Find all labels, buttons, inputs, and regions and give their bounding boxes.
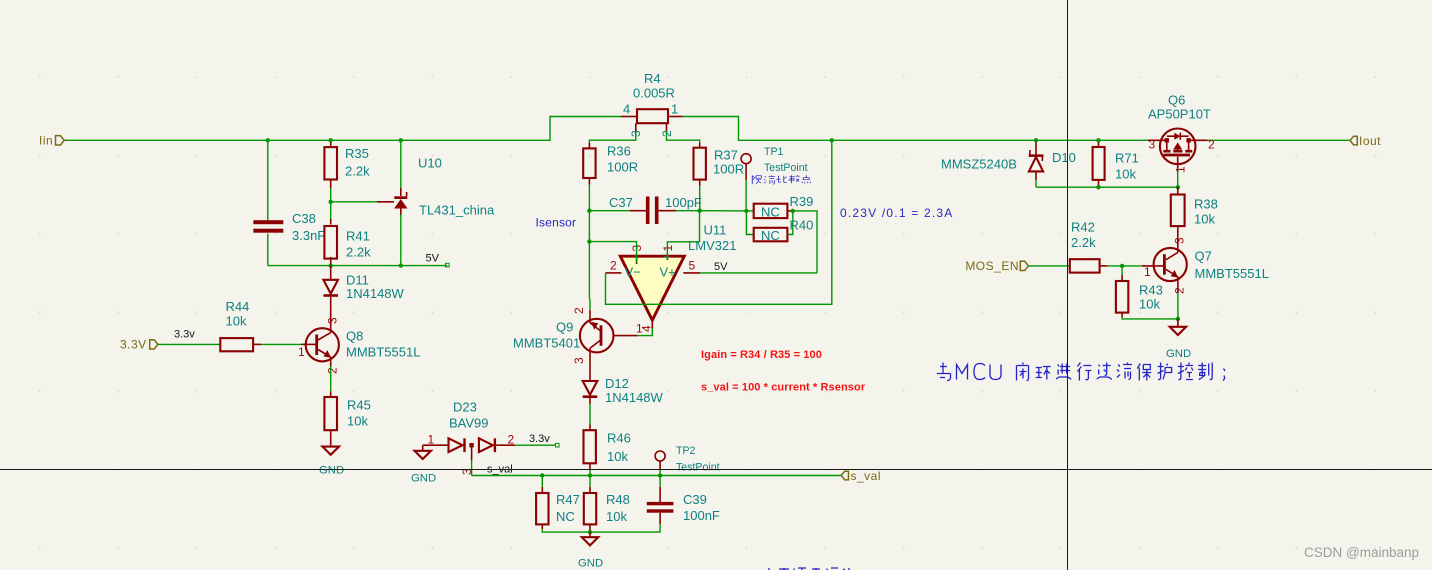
svg-text:R39: R39 bbox=[790, 194, 814, 209]
svg-text:5V: 5V bbox=[714, 261, 728, 273]
svg-text:LMV321: LMV321 bbox=[688, 238, 736, 253]
svg-text:Igain = R34 / R35 = 100: Igain = R34 / R35 = 100 bbox=[701, 349, 822, 361]
junction 5V rail TL431 bbox=[399, 263, 403, 267]
svg-text:R46: R46 bbox=[607, 431, 631, 446]
note 限流比较点 blue bbox=[752, 175, 811, 184]
svg-text:NC: NC bbox=[761, 205, 780, 220]
junction R39 left bbox=[744, 209, 748, 213]
junction s_val R46 bbox=[588, 473, 592, 477]
resistor R40 NC bbox=[746, 211, 813, 243]
ground D23 pin1 bbox=[411, 445, 436, 484]
svg-text:Iin: Iin bbox=[39, 134, 53, 148]
wire pin3 to Isensor node bbox=[589, 242, 636, 263]
svg-text:AP50P10T: AP50P10T bbox=[1148, 107, 1211, 122]
crosshair vertical bbox=[1067, 0, 1069, 570]
svg-text:D23: D23 bbox=[453, 400, 477, 415]
svg-text:1N4148W: 1N4148W bbox=[346, 286, 405, 301]
wire main bus Iin to R4 bbox=[64, 117, 621, 141]
junction main bus C38 bbox=[266, 138, 270, 142]
junction s_val C39 bbox=[658, 473, 662, 477]
svg-text:3.3V: 3.3V bbox=[120, 338, 147, 352]
zener D10 MMSZ5240B bbox=[941, 140, 1076, 187]
resistor R36 bbox=[583, 143, 638, 185]
svg-text:TP1: TP1 bbox=[764, 146, 784, 158]
svg-text:D10: D10 bbox=[1052, 150, 1076, 165]
svg-text:10k: 10k bbox=[1115, 167, 1136, 182]
wire R39 right to 5V line bbox=[793, 211, 817, 273]
wire R37 to node bbox=[699, 186, 701, 211]
diode D12 1N4148W bbox=[583, 376, 664, 405]
svg-text:3.3v: 3.3v bbox=[529, 433, 550, 445]
ground Q7 bbox=[1166, 319, 1191, 360]
svg-text:100R: 100R bbox=[713, 162, 744, 177]
svg-text:Q9: Q9 bbox=[556, 320, 573, 335]
svg-text:2: 2 bbox=[572, 307, 586, 314]
junction main bus R35 bbox=[329, 138, 333, 142]
wire s_val bus bbox=[472, 475, 841, 477]
svg-text:3.3v: 3.3v bbox=[174, 328, 195, 340]
svg-text:V−: V− bbox=[625, 265, 641, 280]
svg-text:5: 5 bbox=[689, 259, 696, 273]
wire R4 pin2 to R37 bbox=[667, 131, 700, 144]
transistor Q9 MMBT5401 bbox=[513, 307, 643, 364]
wire Q9 collector up bbox=[589, 310, 591, 319]
svg-text:3: 3 bbox=[1149, 137, 1156, 151]
svg-text:5V: 5V bbox=[426, 252, 440, 264]
regulator U10 TL431_china bbox=[394, 140, 495, 265]
svg-text:U11: U11 bbox=[704, 223, 727, 238]
resistor R46 bbox=[584, 425, 631, 471]
svg-text:1: 1 bbox=[1144, 265, 1151, 279]
svg-text:TestPoint: TestPoint bbox=[676, 462, 720, 474]
svg-text:GND: GND bbox=[1166, 348, 1191, 360]
svg-text:GND: GND bbox=[411, 473, 436, 485]
svg-text:3: 3 bbox=[326, 317, 340, 324]
port s_val bbox=[841, 469, 881, 483]
junction bottom rail bbox=[588, 530, 592, 534]
svg-text:TL431_china: TL431_china bbox=[419, 203, 495, 218]
svg-text:MMBT5551L: MMBT5551L bbox=[1195, 266, 1269, 281]
junction C37 left bbox=[587, 209, 591, 213]
wire Q6 right to Iout port bbox=[1206, 139, 1351, 141]
svg-text:Isensor: Isensor bbox=[536, 215, 577, 229]
resistor R43 bbox=[1116, 266, 1178, 319]
svg-text:10k: 10k bbox=[1139, 297, 1160, 312]
transistor Q6 AP50P10T bbox=[1148, 93, 1215, 188]
svg-text:R37: R37 bbox=[714, 148, 738, 163]
resistor R45 bbox=[324, 392, 370, 447]
ground bottom center bbox=[578, 532, 603, 569]
svg-text:100nF: 100nF bbox=[683, 508, 720, 523]
diode D23 BAV99 bbox=[423, 400, 516, 476]
crosshair horizontal bbox=[0, 469, 1432, 471]
ground Q8 bbox=[319, 447, 344, 477]
svg-text:GND: GND bbox=[319, 465, 344, 477]
svg-text:GND: GND bbox=[578, 558, 603, 570]
svg-text:TP2: TP2 bbox=[676, 445, 696, 457]
svg-text:s_val: s_val bbox=[851, 469, 882, 483]
capacitor C37 bbox=[589, 195, 702, 224]
junction main bus TL431 bbox=[399, 138, 403, 142]
svg-text:C39: C39 bbox=[683, 492, 707, 507]
svg-text:V+: V+ bbox=[660, 265, 676, 280]
svg-text:10k: 10k bbox=[347, 414, 368, 429]
svg-text:2: 2 bbox=[508, 433, 515, 447]
transistor Q7 MMBT5551L bbox=[1144, 237, 1269, 294]
junction base R43 bbox=[1120, 264, 1124, 268]
junction main bus R71 bbox=[1096, 138, 1100, 142]
svg-text:10k: 10k bbox=[607, 449, 628, 464]
wire R4 to Iout segment bbox=[683, 117, 1150, 141]
wire Q7 emitter down bbox=[1177, 293, 1179, 319]
svg-text:0.23V /0.1 = 2.3A: 0.23V /0.1 = 2.3A bbox=[840, 206, 953, 220]
note blue MCU line bbox=[937, 363, 1225, 381]
junction 5V rail R41 bbox=[329, 263, 333, 267]
svg-text:0.005R: 0.005R bbox=[633, 86, 675, 101]
resistor R48 bbox=[584, 476, 630, 533]
resistor R41 bbox=[324, 202, 371, 266]
op-amp U11 LMV321 bbox=[606, 223, 737, 333]
svg-text:3: 3 bbox=[572, 357, 586, 364]
svg-text:NC: NC bbox=[761, 228, 780, 243]
wire R42 to Q7 base bbox=[1107, 265, 1142, 267]
svg-text:R48: R48 bbox=[606, 492, 630, 507]
svg-text:R41: R41 bbox=[346, 229, 370, 244]
svg-text:R38: R38 bbox=[1194, 197, 1218, 212]
svg-text:2: 2 bbox=[326, 367, 340, 374]
resistor R35 bbox=[324, 140, 370, 202]
junction divider mid bbox=[329, 200, 333, 204]
svg-text:TestPoint: TestPoint bbox=[764, 162, 808, 174]
svg-text:Iout: Iout bbox=[1359, 134, 1381, 148]
wire Q9 emitter to D12 bbox=[589, 356, 591, 381]
svg-text:1: 1 bbox=[1174, 166, 1188, 173]
junction gate rail Q6 bbox=[1176, 185, 1180, 189]
wire pin2 V- supply route bbox=[606, 140, 832, 304]
resistor R42 bbox=[1070, 220, 1107, 273]
svg-text:10k: 10k bbox=[606, 509, 627, 524]
wire D23 pin2 to 3.3v bbox=[515, 444, 556, 446]
svg-text:MMBT5551L: MMBT5551L bbox=[346, 345, 420, 360]
wire divider mid to TL431 ref bbox=[331, 201, 377, 203]
capacitor C39 bbox=[590, 476, 720, 533]
port Iin bbox=[39, 134, 64, 148]
svg-text:2: 2 bbox=[610, 259, 617, 273]
resistor R44 bbox=[220, 299, 261, 351]
wire 3.3V to R44 bbox=[158, 343, 220, 345]
resistor R38 bbox=[1171, 187, 1218, 233]
port Iout bbox=[1350, 134, 1381, 148]
testpoint TP1 bbox=[741, 146, 808, 211]
svg-text:R44: R44 bbox=[226, 299, 250, 314]
svg-text:10k: 10k bbox=[1194, 212, 1215, 227]
svg-text:1: 1 bbox=[636, 322, 643, 336]
wire 5V line pin5 bbox=[700, 272, 817, 274]
svg-text:MOS_EN: MOS_EN bbox=[965, 259, 1019, 273]
svg-text:D12: D12 bbox=[605, 376, 629, 391]
wire C38 branch bbox=[267, 140, 269, 222]
testpoint TP2 bbox=[655, 445, 720, 476]
wire R46 to s_val line bbox=[589, 470, 591, 476]
svg-text:1: 1 bbox=[298, 345, 305, 359]
svg-text:3: 3 bbox=[1173, 237, 1187, 244]
wire D10 to Q6 gate rail bbox=[1036, 186, 1178, 188]
wire MOS_EN to R42 bbox=[1029, 265, 1070, 267]
svg-text:MMBT5401: MMBT5401 bbox=[513, 336, 580, 351]
wire opamp out to Q9 base bbox=[638, 328, 653, 336]
resistor R47 NC bbox=[536, 476, 590, 533]
svg-text:2.2k: 2.2k bbox=[345, 164, 370, 179]
svg-text:CSDN @mainbanp: CSDN @mainbanp bbox=[1304, 545, 1419, 560]
wire Q8 emitter to R45 bbox=[330, 366, 332, 392]
wire Isensor vertical bbox=[588, 211, 590, 299]
svg-text:100R: 100R bbox=[607, 160, 638, 175]
svg-text:R4: R4 bbox=[644, 71, 661, 86]
svg-text:s_val = 100 * current * Rsenso: s_val = 100 * current * Rsensor bbox=[701, 382, 866, 394]
svg-text:2: 2 bbox=[1173, 287, 1187, 294]
label 5V left bbox=[426, 252, 450, 267]
svg-text:R43: R43 bbox=[1139, 283, 1163, 298]
wire pin1 to C37 right node bbox=[667, 211, 699, 259]
svg-text:10k: 10k bbox=[226, 314, 247, 329]
svg-text:R35: R35 bbox=[345, 146, 369, 161]
svg-text:3.3nF: 3.3nF bbox=[292, 228, 325, 243]
junction main bus V- route bbox=[830, 138, 834, 142]
port MOS_EN bbox=[965, 259, 1028, 273]
svg-text:U10: U10 bbox=[418, 156, 442, 171]
wire R44 to Q8 base bbox=[261, 343, 301, 345]
svg-text:2.2k: 2.2k bbox=[346, 245, 371, 260]
capacitor C38 bbox=[253, 211, 325, 243]
junction emitter rail bbox=[1176, 317, 1180, 321]
note clipped blue text bottom bbox=[769, 568, 849, 570]
svg-text:1: 1 bbox=[428, 433, 435, 447]
svg-text:BAV99: BAV99 bbox=[449, 416, 489, 431]
transistor Q8 MMBT5551L bbox=[298, 317, 420, 374]
wire R36 to C37 node bbox=[588, 185, 590, 211]
svg-text:Q6: Q6 bbox=[1168, 93, 1185, 108]
svg-text:R71: R71 bbox=[1115, 151, 1139, 166]
svg-text:R40: R40 bbox=[790, 218, 814, 233]
svg-text:NC: NC bbox=[556, 509, 575, 524]
resistor R39 NC bbox=[754, 194, 814, 220]
svg-text:MMSZ5240B: MMSZ5240B bbox=[941, 157, 1017, 172]
diode D11 1N4148W bbox=[323, 266, 404, 329]
svg-text:2.2k: 2.2k bbox=[1071, 235, 1096, 250]
svg-text:100pF: 100pF bbox=[665, 195, 702, 210]
svg-text:Q7: Q7 bbox=[1195, 249, 1212, 264]
svg-text:1N4148W: 1N4148W bbox=[605, 390, 664, 405]
junction gate rail R71 bbox=[1096, 185, 1100, 189]
junction s_val R47 bbox=[540, 473, 544, 477]
svg-text:4: 4 bbox=[623, 102, 630, 117]
wire R38 to Q7 collector bbox=[1177, 233, 1179, 248]
junction C37 right bbox=[698, 209, 702, 213]
junction R39 right bbox=[791, 209, 795, 213]
wire C37 node to R39 bbox=[700, 210, 754, 212]
wire R4 pin3 to R36 bbox=[589, 131, 635, 144]
wire D23 pin3 to s_val line bbox=[471, 460, 473, 476]
svg-text:Q8: Q8 bbox=[346, 329, 363, 344]
resistor R4 0.005R shunt bbox=[621, 71, 683, 137]
svg-text:R42: R42 bbox=[1071, 220, 1095, 235]
svg-text:R36: R36 bbox=[607, 144, 631, 159]
junction main bus D10 bbox=[1034, 138, 1038, 142]
port 3.3V bbox=[120, 338, 158, 352]
svg-text:C38: C38 bbox=[292, 211, 316, 226]
resistor R37 bbox=[694, 143, 745, 186]
resistor R71 bbox=[1093, 140, 1139, 187]
wire 5V rail left block bbox=[268, 265, 448, 267]
wire D12 to R46 bbox=[589, 404, 591, 425]
junction pin3 line bbox=[587, 239, 591, 243]
svg-text:1: 1 bbox=[671, 102, 678, 117]
svg-text:R45: R45 bbox=[347, 398, 371, 413]
svg-text:C37: C37 bbox=[609, 195, 633, 210]
svg-text:2: 2 bbox=[1208, 138, 1215, 152]
svg-text:R47: R47 bbox=[556, 492, 580, 507]
